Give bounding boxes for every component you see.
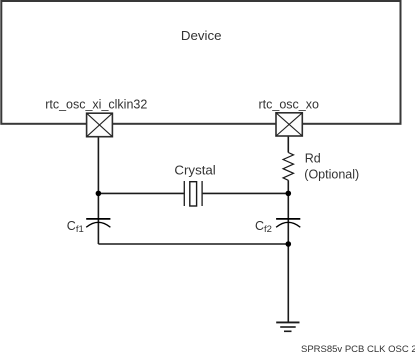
svg-text:Crystal: Crystal	[174, 163, 215, 178]
svg-text:Device: Device	[181, 28, 222, 43]
svg-text:rtc_osc_xi_clkin32: rtc_osc_xi_clkin32	[45, 97, 147, 111]
svg-text:SPRS85v PCB CLK OSC 2: SPRS85v PCB CLK OSC 2	[301, 344, 415, 355]
svg-text:Rd: Rd	[305, 151, 321, 165]
svg-text:(Optional): (Optional)	[304, 167, 359, 181]
svg-text:rtc_osc_xo: rtc_osc_xo	[259, 97, 319, 111]
